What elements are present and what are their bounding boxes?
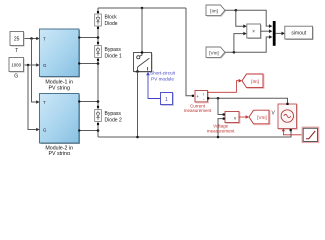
svg-text:×: × xyxy=(252,29,255,35)
current measurement block xyxy=(196,92,209,103)
wire: Module-1 - output to rail xyxy=(79,63,98,65)
node: top rail breaker junction xyxy=(141,7,144,10)
diode D1 Block Diode xyxy=(97,11,99,13)
node: bottom rail voltmeter junction xyxy=(217,136,220,139)
wire: ramp to V source input xyxy=(283,131,303,135)
svg-text:Short-circuit: Short-circuit xyxy=(150,70,176,75)
node: breaker bottom junction xyxy=(136,136,139,139)
wire: right vertical to current measurement xyxy=(186,8,192,96)
node: voltmeter + branch junction xyxy=(217,97,220,100)
node: module2 + junction xyxy=(97,100,100,103)
svg-text:Block: Block xyxy=(105,15,118,21)
wire: 25 to Module-1 T input xyxy=(24,38,37,40)
node: module2 - junction xyxy=(97,129,100,132)
svg-text:simout: simout xyxy=(291,31,306,37)
svg-text:i: i xyxy=(203,91,204,96)
signal input arrow of V source xyxy=(282,128,285,131)
voltage measurement block xyxy=(226,113,240,124)
svg-text:1: 1 xyxy=(165,97,168,103)
svg-text:[Vm]: [Vm] xyxy=(209,50,218,55)
node: Im multiply branch xyxy=(235,9,238,12)
wire: G branch down to Module-2 G input xyxy=(28,65,37,130)
svg-text:Diode 1: Diode 1 xyxy=(105,54,122,60)
constant block 25 (T) xyxy=(11,33,25,47)
goto tag Vm xyxy=(250,111,270,125)
wire: voltmeter - to bottom rail xyxy=(218,119,223,137)
svg-text:25: 25 xyxy=(14,37,20,43)
wire: Module-2 - output to rail xyxy=(79,130,98,132)
ramp block xyxy=(302,127,318,142)
node: Vm multiply branch xyxy=(233,51,236,54)
diode D3 Bypass Diode 2 xyxy=(97,106,99,108)
svg-text:G: G xyxy=(43,128,47,133)
svg-text:Bypass: Bypass xyxy=(105,111,122,117)
svg-text:T: T xyxy=(43,100,46,105)
wire: 1000 to Module-1 G input xyxy=(24,64,37,66)
wire: string rail vertical xyxy=(97,8,99,137)
wire: top rail xyxy=(98,7,186,9)
svg-text:measurement: measurement xyxy=(184,108,212,113)
node: module1 + junction xyxy=(97,36,100,39)
wire: current signal i to goto Im xyxy=(208,81,239,93)
wire: mux out to simout xyxy=(276,32,282,34)
goto tag Im xyxy=(243,75,264,89)
svg-text:PV string: PV string xyxy=(48,151,70,155)
wire: to voltmeter + xyxy=(218,98,223,114)
svg-text:T: T xyxy=(15,48,18,54)
product block xyxy=(248,25,262,39)
wire: v output to goto Vm xyxy=(239,116,246,118)
wire: breaker drop xyxy=(141,8,143,52)
svg-text:Diode: Diode xyxy=(105,21,118,27)
PV module 1 xyxy=(41,30,81,78)
node: module1 - junction xyxy=(97,62,100,65)
wire: bottom rail xyxy=(98,131,291,137)
wire: Vm branch to product input 2 xyxy=(234,34,244,53)
svg-text:[Im]: [Im] xyxy=(210,8,218,13)
wire: Module-1 + output to rail xyxy=(79,37,98,39)
to-workspace simout xyxy=(286,27,314,40)
svg-text:1000: 1000 xyxy=(11,63,21,68)
svg-text:Bypass: Bypass xyxy=(105,47,122,53)
svg-text:PV string: PV string xyxy=(48,86,70,92)
wire: Im branch to product input 1 xyxy=(236,10,244,26)
svg-text:T: T xyxy=(43,37,46,42)
node: G branch junction xyxy=(27,64,30,67)
node: T branch junction xyxy=(30,37,33,40)
svg-text:+: + xyxy=(196,94,199,99)
wire: T branch down to Module-2 T input xyxy=(32,39,37,103)
svg-text:PV module: PV module xyxy=(151,77,174,82)
svg-text:[Im]: [Im] xyxy=(251,79,259,84)
mux xyxy=(273,21,276,46)
svg-text:G: G xyxy=(14,74,18,80)
svg-text:Diode 2: Diode 2 xyxy=(105,118,122,124)
wire: product out to mux input 2 xyxy=(261,30,270,32)
svg-text:G: G xyxy=(43,63,47,68)
wire: control signal to breaker xyxy=(148,75,161,99)
wire: Module-2 + output to rail xyxy=(79,101,98,103)
wire: from Vm to mux input 3 xyxy=(225,37,269,52)
svg-text:[Vm]: [Vm] xyxy=(257,115,266,120)
wire: from Im to mux input 1 xyxy=(225,10,269,26)
from tag Im (top) xyxy=(207,6,226,17)
wire: breaker to bottom rail xyxy=(137,72,139,138)
wire: ammeter out to V source top xyxy=(209,98,288,103)
from tag Vm (top) xyxy=(207,48,226,58)
diode D2 Bypass Diode 1 xyxy=(97,42,99,44)
breaker (short-circuit switch) xyxy=(135,54,153,73)
svg-text:measurement: measurement xyxy=(207,129,235,134)
constant block 1000 (G) xyxy=(10,59,25,73)
PV module 2 xyxy=(41,95,81,145)
